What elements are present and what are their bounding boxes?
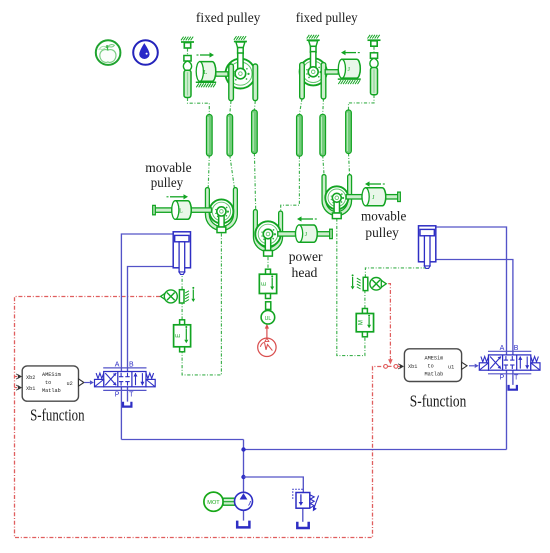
svg-text:Xb1: Xb1 [408,364,417,370]
svg-text:P: P [500,375,505,382]
svg-text:MOT: MOT [207,500,220,506]
svg-text:Xb1: Xb1 [26,386,35,392]
svg-text:B: B [514,345,519,352]
svg-text:E: E [176,334,182,338]
svg-text:u2: u2 [67,381,73,387]
svg-text:to: to [45,380,51,386]
svg-text:T: T [129,391,134,398]
svg-text:A: A [115,362,120,369]
svg-text:A: A [500,345,505,352]
svg-text:UL: UL [265,316,272,322]
svg-text:T: T [514,375,519,382]
svg-text:S-function: S-function [30,406,85,425]
svg-text:pulley: pulley [151,176,184,191]
svg-text:power: power [289,250,323,265]
svg-text:movable: movable [145,161,192,176]
svg-text:u1: u1 [448,365,454,371]
svg-text:P: P [115,391,120,398]
svg-text:fixed pulley: fixed pulley [296,11,358,26]
svg-text:to: to [428,364,434,370]
svg-text:AMESim: AMESim [42,372,61,378]
svg-text:Xb2: Xb2 [26,375,35,381]
svg-text:S-function: S-function [410,391,467,410]
svg-text:M: M [359,320,365,325]
svg-text:E: E [262,282,268,286]
svg-text:pulley: pulley [365,226,399,241]
svg-text:movable: movable [361,210,406,225]
svg-text:fixed pulley: fixed pulley [196,11,261,26]
svg-text:Matlab: Matlab [42,388,61,394]
svg-text:AMESim: AMESim [425,356,444,362]
svg-text:L: L [179,208,183,214]
svg-text:B: B [129,362,134,369]
svg-text:L: L [204,70,208,76]
svg-text:Matlab: Matlab [425,372,444,378]
svg-text:head: head [292,266,318,281]
